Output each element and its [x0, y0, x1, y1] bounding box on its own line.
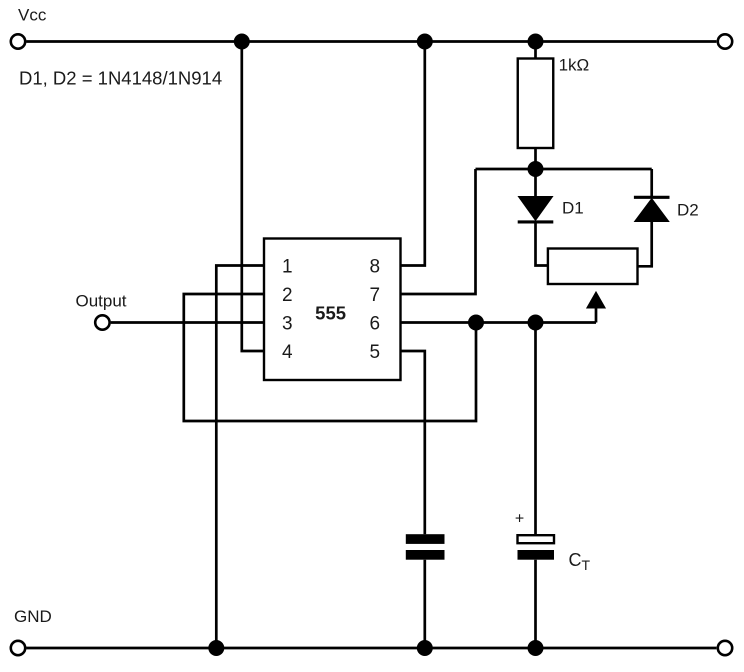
node junction Vcc rail / pin4	[234, 34, 250, 50]
wire resistor bottom to mid node	[534, 148, 537, 169]
svg-text:GND: GND	[14, 607, 52, 626]
node junction pin6 / capacitor CT	[528, 315, 544, 331]
diode D2 triangle	[635, 199, 669, 222]
potentiometer wiper arrow head	[587, 292, 605, 308]
wire pin 1 (ground) to GND rail	[216, 266, 264, 649]
node junction GND rail / capacitor C1	[417, 640, 433, 656]
diode D1 cathode bar	[518, 220, 554, 223]
wire Vcc top rail	[26, 40, 716, 43]
wire D2 anode to potentiometer right end	[638, 222, 652, 267]
wire pin 5 (control) to capacitor C1	[401, 351, 425, 534]
svg-text:8: 8	[370, 257, 381, 278]
node junction Vcc rail / resistor	[528, 34, 544, 50]
capacitor CT top plate (hollow, polarized)	[518, 535, 555, 543]
svg-text:2: 2	[282, 285, 293, 306]
node junction pin6 / pin2 loop	[468, 315, 484, 331]
node junction resistor bottom / pin7 / diodes	[528, 161, 544, 177]
wire capacitor C1 bottom to GND rail	[423, 560, 426, 648]
svg-text:D1, D2 = 1N4148/1N914: D1, D2 = 1N4148/1N914	[19, 68, 222, 89]
svg-text:CT: CT	[569, 550, 591, 573]
terminal GND right	[718, 641, 732, 655]
wire pin6 node down to capacitor CT	[534, 323, 537, 536]
capacitor C1 top plate	[406, 534, 445, 544]
svg-text:5: 5	[370, 342, 381, 363]
wire D1 cathode to potentiometer left end	[536, 223, 548, 266]
capacitor CT bottom plate	[518, 550, 555, 560]
wire Vcc rail to resistor top	[534, 42, 537, 59]
terminal Output	[95, 315, 109, 329]
svg-text:555: 555	[315, 303, 346, 324]
IC U1 555 body	[264, 239, 401, 381]
svg-text:D1: D1	[562, 198, 584, 217]
terminal Vcc left	[11, 34, 25, 48]
wire mid node to diode D1 anode	[534, 169, 537, 197]
capacitor C1 bottom plate	[406, 550, 445, 560]
svg-text:+: +	[515, 511, 524, 528]
wire Vcc rail to pin 4 (reset)	[242, 42, 264, 352]
svg-text:Vcc: Vcc	[18, 6, 47, 25]
svg-text:7: 7	[370, 285, 381, 306]
wire pin 2 (trigger) loop to pin 6 node	[184, 294, 476, 421]
wire mid horizontal rail above diodes	[476, 168, 652, 171]
node junction GND rail / capacitor CT	[528, 640, 544, 656]
potentiometer VR1 body	[548, 249, 638, 285]
svg-text:1kΩ: 1kΩ	[559, 56, 590, 75]
node junction Vcc rail / pin8	[417, 34, 433, 50]
wire pin 6 (threshold) horizontal to wiper	[401, 321, 597, 324]
wire pin 3 to output terminal	[111, 321, 264, 324]
wire mid rail down to diode D2 cathode	[650, 169, 653, 196]
wire GND bottom rail	[26, 647, 716, 650]
terminal GND left	[11, 641, 25, 655]
wire capacitor CT bottom to GND rail	[534, 560, 537, 648]
svg-text:4: 4	[282, 342, 293, 363]
terminal Vcc right	[718, 34, 732, 48]
wire wiper down to pin 6 line	[595, 308, 598, 323]
svg-text:1: 1	[282, 257, 293, 278]
svg-text:D2: D2	[677, 201, 699, 220]
svg-text:3: 3	[282, 314, 293, 335]
node junction GND rail / pin1	[208, 640, 224, 656]
wire pin 8 to Vcc rail	[401, 42, 425, 266]
diode D1 triangle	[518, 197, 552, 221]
wire pin 7 (discharge) up to mid rail	[401, 169, 476, 294]
svg-text:Output: Output	[76, 291, 127, 310]
resistor R1 1k body	[518, 59, 554, 149]
svg-text:6: 6	[370, 314, 381, 335]
diode D2 cathode bar	[634, 196, 670, 199]
